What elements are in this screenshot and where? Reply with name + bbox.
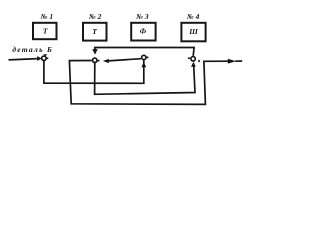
svg-text:Ф: Ф <box>140 26 147 35</box>
wire: output tail after arrow <box>235 60 242 62</box>
svg-text:Т: Т <box>43 27 48 36</box>
svg-text:№ 4: № 4 <box>186 12 200 21</box>
wire: node 4 up, top return line, down arrow into node 2 <box>95 48 194 56</box>
svg-text:№ 2: № 2 <box>88 12 102 21</box>
stub: node 4 right dot <box>198 60 200 62</box>
svg-text:деталь Б: деталь Б <box>12 45 53 54</box>
svg-text:№ 3: № 3 <box>135 12 149 21</box>
block №4 box <box>181 23 205 42</box>
stub: node 1 right <box>46 57 48 59</box>
arrowhead remnant: from block №1 down to node 1 <box>43 54 47 56</box>
node 1 <box>42 56 46 60</box>
block №3 box <box>131 23 155 41</box>
node 2 <box>93 58 97 62</box>
block №1 box <box>33 23 57 39</box>
svg-text:№ 1: № 1 <box>40 12 54 21</box>
arrowhead: down into node 2 <box>92 49 97 55</box>
wire: node 2 down, feedback line B to node 4 <box>95 63 195 94</box>
stub: node 2 right <box>97 60 99 62</box>
arrowhead: pointing left into node 2 <box>103 59 109 63</box>
node 4 <box>191 57 195 61</box>
arrowhead: input arrow into node 1 <box>37 56 42 61</box>
wire: corner segment into node 2 from left, down to line C, right, riser up, output line <box>69 61 228 105</box>
stub: node 3 right <box>146 56 148 58</box>
arrowhead: up into node 3 <box>141 62 146 67</box>
svg-text:Т: Т <box>92 27 97 36</box>
stub: node 4 left <box>188 57 190 59</box>
arrowhead: output arrow pointing right <box>228 59 236 64</box>
wire: node 3 left to arrow into node 2 right <box>108 59 141 61</box>
wire: node 1 down, feedback line A to node 3 <box>44 60 144 83</box>
wire: input line into node 1 <box>9 59 39 60</box>
node 3 <box>142 55 146 59</box>
arrowhead: up into node 4 <box>191 62 196 67</box>
svg-text:Ш: Ш <box>188 27 198 36</box>
block №2 box <box>83 23 107 41</box>
